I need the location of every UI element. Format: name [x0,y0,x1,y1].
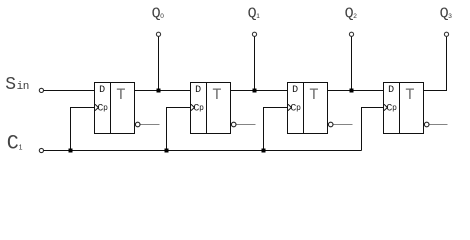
svg-text:T: T [309,86,318,104]
wire clock bus riser to FF2 Cp pin [264,108,288,151]
inverted output bubble of FF3 [424,122,429,127]
svg-text:S: S [5,75,16,95]
label Q2 [345,5,358,22]
svg-text:D: D [99,85,105,96]
svg-text:D: D [388,85,394,96]
wire Q2 riser to output node [351,36,353,90]
junction node Q2 [350,89,354,93]
svg-text:p: p [296,104,301,113]
svg-text:T: T [116,86,125,104]
junction node Q1 [253,89,257,93]
terminal S_in open circle [39,88,43,92]
label S_in (serial data input) [5,75,29,95]
wire FF3 Q output up to terminal Q3 [424,36,447,90]
wire FF0 Q output to FF1 D input [135,90,191,92]
junction clock bus node 1 [69,149,73,153]
flip-flop FF2 (D flip-flop block) [288,83,353,134]
wire FF1 Q output to FF2 D input [231,90,288,92]
svg-text:n: n [23,81,30,93]
wire S_in terminal to FF0 D input [44,90,95,92]
junction clock bus node 3 [262,149,266,153]
inverted output bubble of FF1 [231,122,236,127]
label Q0 [152,5,165,22]
terminal C_1 open circle [39,148,43,152]
svg-text:2: 2 [353,13,357,20]
svg-text:0: 0 [160,13,164,20]
terminal Q2 open circle [349,32,353,36]
wire clock bus riser to FF3 Cp pin [362,108,384,151]
svg-text:D: D [292,85,298,96]
terminal Q1 open circle [252,32,256,36]
svg-text:1: 1 [256,13,260,20]
flip-flop FF3 (D flip-flop block) [384,83,448,134]
wire Q0 riser to output node [158,36,160,90]
terminal Q0 open circle [156,32,160,36]
label C_1 (clock input) [7,132,23,155]
svg-text:3: 3 [448,13,452,20]
svg-text:T: T [212,86,221,104]
junction clock bus node 2 [165,149,169,153]
svg-text:p: p [392,104,397,113]
wire Qbar output stub of FF1 [237,124,256,126]
clock wedge dynamic-input symbol of FF1 [191,104,194,110]
wire Qbar output stub of FF0 [141,124,160,126]
wire Q1 riser to output node [254,36,256,90]
svg-text:T: T [405,86,414,104]
wire Qbar output stub of FF3 [430,124,448,126]
terminal Q3 open circle [444,32,448,36]
inverted output bubble of FF0 [135,122,140,127]
inverted output bubble of FF2 [328,122,333,127]
svg-text:p: p [103,104,108,113]
label Q3 [440,5,453,22]
wire C_1 clock bus along bottom [44,150,362,152]
wire clock bus riser to FF0 Cp pin [71,108,95,151]
junction node Q0 [157,89,161,93]
flip-flop FF0 (D flip-flop block) [95,83,160,134]
clock wedge dynamic-input symbol of FF0 [95,104,98,110]
wire Qbar output stub of FF2 [334,124,353,126]
svg-text:C: C [7,132,19,155]
label Q1 [248,5,261,22]
wire FF2 Q output to FF3 D input [328,90,384,92]
flip-flop FF1 (D flip-flop block) [191,83,256,134]
clock wedge dynamic-input symbol of FF3 [384,104,387,110]
svg-text:p: p [199,104,204,113]
svg-text:D: D [195,85,201,96]
wire clock bus riser to FF1 Cp pin [167,108,191,151]
svg-text:1: 1 [19,145,23,152]
clock wedge dynamic-input symbol of FF2 [288,104,291,110]
